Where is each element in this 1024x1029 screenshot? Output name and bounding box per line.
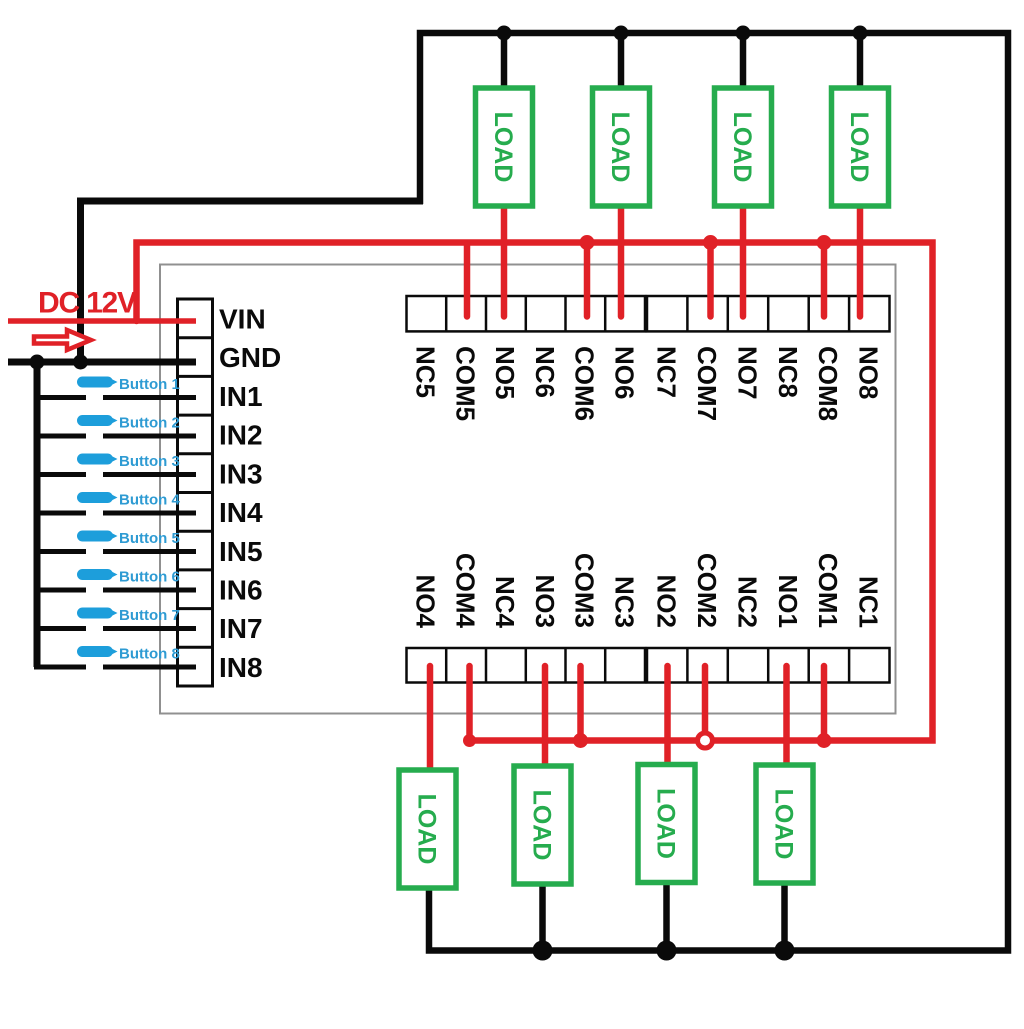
arrow DC input	[34, 330, 91, 350]
svg-text:NC3: NC3	[609, 576, 639, 628]
svg-text:COM2: COM2	[692, 553, 722, 628]
wire: red COM2 to bottom red bus	[702, 666, 709, 733]
svg-text:COM5: COM5	[450, 346, 480, 421]
load box LOAD-bot1	[399, 770, 456, 888]
terminal block TB-bot-right (NO2..NC1)	[647, 648, 890, 683]
terminal block TB-top-right (NC7..NO8)	[647, 296, 890, 331]
push button B1	[77, 376, 180, 393]
svg-text:Button 7: Button 7	[119, 607, 180, 624]
junction red COM4 corner	[463, 734, 476, 747]
svg-text:COM8: COM8	[813, 346, 843, 421]
svg-text:Button 2: Button 2	[119, 415, 180, 432]
load box LOAD-bot4	[756, 765, 813, 883]
load box LOAD-bot3	[638, 765, 695, 883]
wire: red main COM loop	[137, 243, 933, 741]
wire: black stub LOAD3 to bottom bus	[539, 882, 546, 951]
svg-text:NO2: NO2	[652, 575, 682, 628]
svg-text:NO1: NO1	[773, 575, 803, 628]
push button B6	[77, 569, 180, 586]
junction black (80.5,362)	[73, 355, 88, 370]
wire: red NO3 to LOAD	[542, 666, 549, 768]
svg-text:COM7: COM7	[692, 346, 722, 421]
load box LOAD-top2	[593, 88, 650, 206]
relay board outline	[160, 265, 896, 714]
wire: black stub LOAD1 to bottom bus	[781, 881, 788, 951]
svg-text:LOAD: LOAD	[728, 112, 756, 183]
svg-text:IN2: IN2	[219, 420, 263, 451]
wire: IN1 row with switch gap	[34, 395, 86, 400]
wire: red bus to COM6	[584, 245, 591, 317]
wire: IN5 row with switch gap	[34, 549, 86, 554]
wire: black stub top bus to LOAD5	[501, 33, 508, 91]
load box LOAD-top3	[715, 88, 772, 206]
svg-text:Button 3: Button 3	[119, 453, 180, 470]
push button B5	[77, 530, 180, 547]
svg-text:NC1: NC1	[854, 576, 884, 628]
junction black (860,33)	[853, 26, 868, 41]
wire: red LOAD to NO7	[740, 204, 747, 317]
wire: black stub top bus to LOAD7	[740, 33, 747, 91]
svg-text:NO8: NO8	[854, 346, 884, 399]
svg-text:IN3: IN3	[219, 458, 263, 489]
push button B8	[77, 646, 180, 663]
wire: red NO4 to LOAD	[427, 666, 434, 774]
svg-text:IN1: IN1	[219, 381, 263, 412]
junction black bottom bus (784.5)	[775, 941, 795, 961]
svg-text:IN5: IN5	[219, 536, 263, 567]
wire: red bus to COM7	[707, 245, 714, 317]
svg-text:NC4: NC4	[490, 576, 520, 629]
svg-text:COM6: COM6	[570, 346, 600, 421]
svg-text:LOAD: LOAD	[528, 790, 556, 861]
push button B3	[77, 453, 180, 470]
svg-text:IN4: IN4	[219, 497, 263, 528]
svg-text:Button 5: Button 5	[119, 530, 180, 547]
push button B7	[77, 607, 180, 624]
svg-text:Button 8: Button 8	[119, 646, 180, 663]
svg-text:NC8: NC8	[773, 346, 803, 398]
junction red (824,242.5)	[817, 235, 832, 250]
svg-text:COM3: COM3	[570, 553, 600, 628]
svg-text:IN8: IN8	[219, 652, 263, 683]
wire: IN6 row with switch gap	[34, 588, 86, 593]
terminal block TB-top-left (NC5..NO6)	[407, 296, 646, 331]
wire: IN3 row with switch gap	[34, 472, 86, 477]
junction black bottom bus (666.5)	[657, 941, 677, 961]
wire: IN8 row with switch gap	[34, 665, 86, 670]
svg-text:Button 4: Button 4	[119, 492, 180, 509]
wire: red NO2 to LOAD	[664, 666, 671, 767]
wire: left button bus	[34, 362, 41, 667]
junction black (743,33)	[736, 26, 751, 41]
svg-text:LOAD: LOAD	[489, 112, 517, 183]
junction black (621,33)	[614, 26, 629, 41]
junction red (580.5,740.5)	[573, 733, 588, 748]
push button B2	[77, 415, 180, 432]
junction black (37,362)	[30, 355, 45, 370]
load box LOAD-bot2	[514, 766, 571, 884]
wire: red LOAD to NO8	[857, 204, 864, 317]
open junction ring COM2	[698, 733, 713, 748]
svg-text:NO7: NO7	[732, 346, 762, 399]
svg-text:NC5: NC5	[411, 346, 441, 398]
wire: red DC12V line into VIN pin	[8, 318, 196, 324]
wire: red COM3 to bottom red bus	[577, 666, 584, 741]
wire: black stub top bus to LOAD8	[857, 33, 864, 91]
svg-text:Button 1: Button 1	[119, 376, 180, 393]
svg-text:NO3: NO3	[530, 575, 560, 628]
load box LOAD-top1	[476, 88, 533, 206]
wire: GND line into GND pin	[8, 359, 196, 366]
wire: black stub top bus to LOAD6	[618, 33, 625, 91]
wire: red LOAD to NO5	[501, 204, 508, 317]
svg-text:NC6: NC6	[530, 346, 560, 398]
wire: red bus to COM5	[464, 245, 471, 317]
terminal block TB-bot-left (NO4..NC3)	[407, 648, 646, 683]
svg-text:NC2: NC2	[732, 576, 762, 628]
input pin header J1 (VIN,GND,IN1-IN8)	[178, 299, 213, 686]
svg-text:DC 12V: DC 12V	[38, 287, 137, 320]
junction black bottom bus (542.5)	[533, 941, 553, 961]
svg-text:LOAD: LOAD	[770, 789, 798, 860]
svg-text:NO4: NO4	[411, 575, 441, 629]
junction red (587,242.5)	[580, 235, 595, 250]
svg-text:VIN: VIN	[219, 304, 266, 335]
svg-text:LOAD: LOAD	[413, 794, 441, 865]
push button B4	[77, 492, 180, 509]
svg-text:LOAD: LOAD	[845, 112, 873, 183]
svg-text:IN7: IN7	[219, 613, 263, 644]
wire: black from top-left corner down to GND node	[81, 201, 424, 362]
svg-text:LOAD: LOAD	[606, 112, 634, 183]
wire: red bus to COM8	[821, 245, 828, 317]
svg-text:LOAD: LOAD	[652, 788, 680, 859]
wire: red COM1 to bottom red bus	[821, 666, 828, 741]
svg-text:Button 6: Button 6	[119, 569, 180, 586]
junction red (710.5,242.5)	[703, 235, 718, 250]
svg-text:NC7: NC7	[652, 346, 682, 398]
svg-text:NO6: NO6	[609, 346, 639, 399]
svg-text:COM1: COM1	[813, 553, 843, 628]
junction red (824,740.5)	[817, 733, 832, 748]
svg-text:NO5: NO5	[490, 346, 520, 399]
svg-text:COM4: COM4	[450, 553, 480, 629]
load box LOAD-top4	[832, 88, 889, 206]
wire: red NO1 to LOAD	[783, 666, 790, 768]
wire: black stub LOAD2 to bottom bus	[663, 881, 670, 951]
svg-text:IN6: IN6	[219, 575, 263, 606]
svg-text:GND: GND	[219, 342, 281, 373]
wire: red LOAD to NO6	[618, 204, 625, 317]
junction black (504,33)	[497, 26, 512, 41]
wire: IN7 row with switch gap	[34, 626, 86, 631]
wire: +12V black loop (top bus, right side, bottom bus)	[420, 33, 1008, 951]
wire: IN4 row with switch gap	[34, 511, 86, 516]
wire: IN2 row with switch gap	[34, 434, 86, 439]
